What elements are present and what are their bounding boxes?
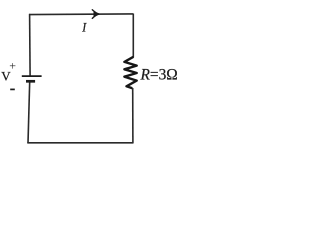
- wire right lower: [132, 88, 134, 143]
- wire right upper: [132, 14, 134, 58]
- wire left upper: [29, 14, 32, 76]
- resistor R (zigzag body): [124, 57, 136, 89]
- wire top: [29, 13, 133, 16]
- battery negative plate (short): [26, 80, 35, 83]
- svg-text:R=3Ω: R=3Ω: [140, 66, 178, 83]
- svg-text:I: I: [81, 21, 87, 35]
- current direction arrow (I) on top wire: [94, 12, 99, 16]
- voltage source V (battery): [22, 76, 42, 81]
- battery positive plate (long): [22, 75, 42, 77]
- polarity minus sign: [10, 88, 15, 90]
- svg-text:+: +: [9, 59, 16, 73]
- wire left lower: [28, 82, 30, 144]
- wire bottom: [27, 142, 133, 144]
